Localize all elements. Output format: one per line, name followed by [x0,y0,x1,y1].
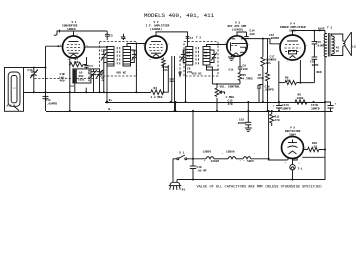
node T1 B+ [106,101,109,104]
svg-text:2: 2 [287,60,289,63]
svg-text:100: 100 [243,68,248,71]
wire chain 3 [236,158,243,160]
svg-text:(12AV6): (12AV6) [232,28,244,32]
wire R9 line [279,82,285,84]
svg-text:4.7MEG: 4.7MEG [243,77,254,80]
node lamp AC line [292,179,294,181]
variable capacitor C2A [90,69,96,92]
resistor R10 [308,147,319,151]
svg-text:T 1: T 1 [121,37,126,40]
wire V3 plate top [237,32,247,36]
wire chain 2 [214,158,228,160]
svg-text:+: + [273,105,275,108]
trimmer capacitor C8 [181,50,186,63]
node T2 B+ [185,101,187,103]
tube V1 internals [67,42,81,57]
transformer T2 core [196,47,199,65]
wire speaker top lead [331,34,342,41]
svg-text:B-: B- [108,108,112,111]
transformer T2 primary winding [186,47,193,66]
capacitor C18 line [190,159,196,180]
svg-text:30MFD: 30MFD [311,107,320,110]
speaker voice coil [343,41,345,46]
wire T2 secondary bottom drop [207,65,213,84]
oscillator coil L2 box [73,69,91,83]
svg-text:12AV6: 12AV6 [211,160,220,163]
svg-text:R4: R4 [154,87,158,90]
node C17A bottom [278,110,280,112]
node T1 grid wire [136,43,138,45]
node link bottom [175,110,177,112]
wire coupling line to V4 grid [247,38,281,43]
wire V1 plate to T1 [85,46,108,48]
node C18a rails [247,101,249,103]
svg-text:7: 7 [248,43,250,46]
svg-text:8: 8 [204,159,206,162]
svg-text:12BA6: 12BA6 [226,150,235,153]
svg-text:L1: L1 [13,87,16,90]
svg-text:C5: C5 [109,34,113,37]
svg-text:100: 100 [250,33,255,36]
wire V5 pin to AC vertical [302,156,325,158]
heater 12BE6 [206,157,214,159]
svg-text:3: 3 [285,162,287,165]
heater 12BA6 [228,157,236,159]
svg-text:41: 41 [187,55,191,58]
wire top line y=31 to T1/C5 [74,30,108,32]
transformer T1 core [117,47,120,66]
svg-text:S 1: S 1 [179,151,184,154]
svg-text:7: 7 [168,43,170,46]
resistor R3 cathode 470 [162,58,166,93]
wire T2 secondary bottom down [207,65,219,70]
svg-text:.01MF: .01MF [316,44,325,47]
wire V4 cathode drop x=300.4 [299,60,301,83]
svg-text:C4: C4 [89,65,93,68]
svg-text:.02MFD: .02MFD [264,89,275,92]
wire link x=175.5 [175,102,177,111]
node C1A bottom rail [33,91,35,93]
transformer T1 primary winding [107,47,114,67]
node chain junction [268,158,270,160]
svg-text:C4: C4 [133,50,137,53]
wire T2 secondary top to V3 grid [207,45,228,47]
capacitor C6 on T1 top [122,34,126,40]
svg-text:50C5: 50C5 [247,160,254,163]
node cathode rail [69,91,71,93]
resistor R9 [285,81,296,85]
wire V1 pin to C4 [86,57,88,65]
capacitor C17B electrolytic [325,102,334,111]
node R7 B- [267,110,269,112]
wire loop top lead y=67.5 [24,67,46,69]
tube V4 internals [285,41,301,58]
svg-text:5: 5 [150,58,152,61]
wire V4 plate line [293,31,326,36]
loop antenna L1 inner winding [8,72,20,111]
tube V2 internals [149,42,163,57]
node loop/grid junction [45,67,47,69]
svg-text:.05 MF: .05 MF [197,169,208,172]
node pot B- [216,110,218,112]
resistor R1 [70,62,83,66]
wire V1 cathode drop [69,58,71,112]
svg-text:L2: L2 [71,85,75,88]
resistor R8 filter [295,100,307,105]
svg-text:MODELS 400, 401, 411: MODELS 400, 401, 411 [144,12,215,19]
rail B+ [105,102,325,104]
svg-text:455 KC: 455 KC [192,73,203,76]
resistor R5 [238,73,242,85]
node grid line [57,45,59,47]
node R1 left [69,64,71,66]
wire coil bottom drop [74,83,76,92]
capacitor C5 [105,31,109,40]
capacitor C14 coupling [244,32,248,38]
stub above AVC rail [85,88,87,93]
node R11 B- [271,110,273,112]
capacitor C7 plates [170,79,174,81]
svg-text:4: 4 [299,162,301,165]
svg-text:+: + [335,103,337,106]
svg-text:270: 270 [187,71,192,74]
svg-text:1: 1 [240,159,242,162]
wire vertical x=45.5 grid to AVC rail [45,46,47,99]
tube V1 grid cap wire and hook [54,30,74,37]
capacitor C18a with ground [245,102,252,132]
svg-text:2: 2 [243,159,245,162]
wire T1 primary bottom to B+ [106,66,108,102]
svg-text:455 KC: 455 KC [116,72,127,75]
wire heater drop x=193 [192,111,194,159]
transformer T3 primary winding [324,34,327,57]
variable capacitor C2B [96,69,102,92]
svg-text:8: 8 [68,58,70,61]
svg-text:B+: B+ [109,99,113,102]
svg-text:470K: 470K [257,77,264,80]
wire B- to heater chain [269,111,288,160]
svg-text:VALUE OF ALL CAPACITORS ARE MM: VALUE OF ALL CAPACITORS ARE MMF UNLESS O… [197,185,322,189]
wire grid line V1 y=46.2 [46,45,64,47]
capacitor C4 [84,65,88,69]
node V2 pin B- [174,110,176,112]
wire gang dashed link [35,78,100,80]
wire R1 to C4 [83,64,86,66]
svg-text:3: 3 [86,44,88,47]
wire heater chain line [187,158,206,160]
node R9 line [299,82,301,84]
trimmer capacitor C3 [101,50,107,92]
wire AC bottom line [177,179,325,181]
svg-text:7: 7 [306,44,308,47]
resistor R11 470 [270,111,274,126]
resistor R7 grid [266,39,270,111]
node T3 B+ junction [324,101,326,103]
ground V3 cathode [228,55,235,61]
svg-text:VC: VC [336,50,340,53]
svg-text:VOL. CONTROL: VOL. CONTROL [220,85,241,88]
node C15 plate line [314,30,316,32]
wire T1 secondary top to V2 grid [127,44,146,47]
wire coil top to padders [91,68,100,70]
node B- heater [268,110,270,112]
node C1A top [33,67,35,69]
speaker cone [345,32,351,56]
heater 50C5 [243,157,251,159]
tube pin digits [60,33,308,163]
svg-text:22: 22 [314,145,318,148]
wire V2 plate to T2 [156,32,188,47]
transformer T1 shield dashed box [100,42,137,77]
node R3 rail [163,91,165,93]
svg-text:C7: C7 [190,37,194,40]
wire V2 screen drop [171,56,173,102]
svg-text:150: 150 [285,80,290,83]
tube V3 internals [231,39,247,55]
loop antenna L1 outer box [5,68,24,112]
svg-text:.02MFD: .02MFD [269,37,280,40]
tube V1 envelope [63,36,85,58]
svg-text:(12BA6): (12BA6) [150,27,162,31]
tube V5 pin stubs [285,158,301,165]
trimmer capacitor C4 [131,50,138,63]
node R8 right [313,101,315,103]
wire V4 left drop x=278.8 [278,61,280,102]
tube V3 envelope [227,36,247,56]
node plate line second [319,30,321,32]
svg-text:RED: RED [317,71,322,74]
svg-text:1000: 1000 [297,97,304,100]
wire chain 4 [251,158,269,160]
transformer T1 secondary winding [123,47,131,67]
tube V5 internals [288,140,298,155]
svg-text:30MFD: 30MFD [282,107,291,110]
node C18 bottom [192,179,194,181]
wire speaker bottom lead [331,46,342,56]
wire R10 to AC vertical [319,149,325,151]
node AVC junction T1 [135,91,137,93]
node C7 B+ [170,101,172,103]
tube V2 envelope [145,36,167,58]
capacitor C13 plates [43,96,49,111]
svg-text:4: 4 [77,33,79,36]
svg-text:460: 460 [60,80,65,83]
node C17A top [278,101,280,103]
resistor R6 150K [261,39,265,102]
transformer T3 core [328,33,330,57]
svg-text:10%: 10% [266,62,271,65]
rail B- [46,111,333,113]
wire T1 secondary bottom to AVC [135,44,137,93]
wire T3 primary bottom RED drop [325,57,327,180]
tube V4 envelope [280,35,305,60]
svg-text:C1A: C1A [28,69,33,72]
resistor R4 3.3MEG [151,90,164,95]
transformer T2 secondary winding [203,47,210,66]
svg-text:.02MF: .02MF [310,64,319,67]
svg-text:140-460: 140-460 [88,69,91,81]
capacitor C7b tick on T2 drop [186,37,194,40]
svg-text:C3: C3 [101,50,105,53]
svg-text:I-1: I-1 [298,168,303,171]
node C2B rail [99,91,101,93]
wire V2 pin drop [174,56,176,111]
node R10 AC [324,149,326,151]
node link top [175,101,177,103]
trimmer capacitor C1A [30,68,37,93]
pilot lamp I1 [290,159,295,180]
plug P1 [169,159,182,190]
svg-text:7: 7 [222,152,224,155]
node AVC rail x=45.5 [45,91,47,93]
svg-text:T 3: T 3 [327,27,332,30]
svg-text:P1: P1 [182,189,186,192]
svg-text:10K: 10K [74,61,79,64]
svg-text:C11: C11 [229,69,234,72]
T2 tuning arrow [179,56,181,76]
wire T2 primary bottom to B+ [185,65,187,102]
svg-text:41: 41 [204,55,208,58]
transformer T3 secondary winding [331,36,334,54]
capacitor C16 [257,85,263,103]
wire R9 line right [296,82,314,84]
capacitor C15 [312,31,318,57]
wire V5 plate to R10 [304,149,308,151]
capacitor C9 det [238,57,242,73]
node pot top [216,83,218,85]
svg-text:LS: LS [352,46,356,49]
tube V5 envelope [282,137,304,159]
node C18 chain [192,158,194,160]
node heater drop [192,110,194,112]
svg-text:.05MFD: .05MFD [236,122,247,125]
svg-text:470: 470 [275,119,280,122]
trimmer capacitor C9 [210,50,217,63]
svg-text:3.3 MEG: 3.3 MEG [151,96,163,99]
potentiometer R2 volume control [215,84,224,111]
wire AVC rail right + up [163,65,168,92]
node R6 B+ [262,101,264,103]
node R6 column top [262,38,264,40]
transformer T2 shield dashed box [184,42,218,77]
svg-text:.05MFD: .05MFD [47,103,58,106]
svg-text:470: 470 [228,103,233,106]
capacitor C17A electrolytic [276,102,282,111]
svg-text:12BE6: 12BE6 [203,150,212,153]
wire diode return line y=84 [212,83,240,85]
wire plate line into T3 primary [325,31,327,34]
node plate/T1 [106,46,108,48]
wire AVC rail left [24,92,151,94]
svg-text:10%: 10% [163,69,168,72]
svg-text:T 2: T 2 [196,37,201,40]
svg-text:+: + [254,152,256,155]
svg-text:A.5 B: A.5 B [7,105,16,108]
svg-text:COIL: COIL [78,79,85,82]
switch S1 [177,155,187,160]
capacitor C20 [312,57,318,83]
